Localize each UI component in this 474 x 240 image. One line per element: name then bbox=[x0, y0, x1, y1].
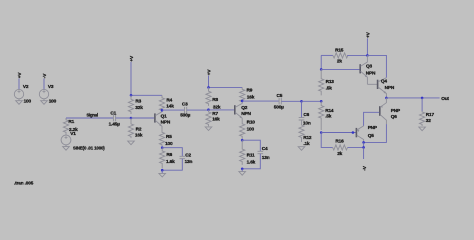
junction R4/Q1 collector/C3 bbox=[161, 109, 164, 112]
resistor R15 bbox=[333, 53, 348, 58]
resistor R14 bbox=[319, 101, 324, 130]
voltage source V2 bbox=[14, 89, 23, 98]
wire junction to C2 top bbox=[162, 148, 182, 157]
ground (below V1) bbox=[63, 147, 70, 151]
svg-text:V3: V3 bbox=[48, 84, 54, 90]
svg-text:Q4: Q4 bbox=[381, 79, 388, 85]
capacitor C1 bbox=[113, 115, 115, 122]
svg-text:16k: 16k bbox=[135, 132, 143, 138]
svg-text:C5: C5 bbox=[277, 93, 283, 99]
svg-text:R9: R9 bbox=[247, 87, 253, 93]
junction Q5 collector / Q6 collector wire bbox=[362, 141, 365, 144]
junction rail/R15/Q3 collector bbox=[366, 54, 369, 57]
wire R15 right to rail junction bbox=[347, 54, 367, 56]
svg-text:32: 32 bbox=[426, 118, 431, 124]
svg-text:1.6k: 1.6k bbox=[166, 159, 175, 165]
wire Q5 emitter up and right to Q6 base bbox=[364, 112, 380, 126]
wire Q3 base bbox=[321, 68, 359, 70]
junction R9/Q2 collector/C5 bbox=[241, 100, 244, 103]
svg-text:Out: Out bbox=[441, 96, 449, 102]
ground (below R7) bbox=[205, 127, 212, 131]
wire V3 top to -V flag bbox=[43, 79, 45, 90]
junction Q3 base wire bbox=[320, 68, 323, 71]
wire R15 corner down to Q3 base junction bbox=[320, 55, 322, 69]
wire C4 bottom to R11 bottom bbox=[242, 154, 260, 169]
wire R14 junction to Q5 base bbox=[321, 132, 356, 134]
junction C5/C6 node bbox=[300, 100, 303, 103]
svg-text:R10: R10 bbox=[247, 120, 256, 126]
svg-text:R14: R14 bbox=[325, 108, 334, 114]
wire V2 bottom to ground bbox=[18, 99, 20, 101]
svg-text:.5k: .5k bbox=[325, 113, 332, 119]
svg-text:16k: 16k bbox=[247, 95, 255, 101]
svg-text:Q6: Q6 bbox=[391, 114, 398, 120]
ground (stage 1 emitter) bbox=[159, 173, 166, 177]
wire C1 to Q1 base node bbox=[116, 117, 131, 119]
svg-text:R3: R3 bbox=[135, 98, 141, 104]
junction output node bbox=[385, 97, 388, 100]
transistor Q4 bbox=[378, 78, 387, 98]
svg-text:NPN: NPN bbox=[366, 71, 376, 77]
junction rail/R3/R4 bbox=[130, 94, 133, 97]
resistor R2 bbox=[128, 118, 133, 138]
svg-text:C2: C2 bbox=[185, 152, 191, 158]
svg-text:.5k: .5k bbox=[326, 85, 333, 91]
ground (below V3) bbox=[41, 101, 48, 105]
capacitor C3 bbox=[185, 107, 187, 114]
resistor R6 bbox=[160, 148, 165, 169]
junction Q1 base node bbox=[130, 117, 133, 120]
svg-text:R11: R11 bbox=[247, 153, 255, 159]
resistor R9 bbox=[240, 87, 245, 102]
svg-text:Q3: Q3 bbox=[366, 64, 373, 70]
svg-text:R15: R15 bbox=[335, 48, 344, 54]
wire down to -V flag bbox=[363, 147, 365, 159]
signal source V1 bbox=[61, 134, 71, 147]
capacitor C5 bbox=[279, 98, 281, 105]
wire collector to C3 bbox=[162, 109, 184, 111]
junction R10/R11/C4 bbox=[241, 139, 244, 142]
resistor R16 bbox=[333, 145, 348, 150]
resistor R12 bbox=[299, 120, 304, 142]
svg-text:Q5: Q5 bbox=[368, 133, 375, 139]
wire junction down to R16 wire bbox=[363, 142, 365, 147]
svg-text:C1: C1 bbox=[110, 110, 116, 116]
capacitor C6 bbox=[299, 118, 305, 120]
wire node to Q1 base bbox=[131, 117, 154, 119]
svg-text:SINE(0 .01 1000): SINE(0 .01 1000) bbox=[73, 145, 105, 150]
wire node to Q2 base bbox=[209, 109, 235, 111]
junction rail/R8/R9 bbox=[207, 86, 210, 89]
wire V3 bottom to ground bbox=[43, 99, 45, 101]
wire down to R17 bbox=[421, 98, 423, 111]
ground (stage 2 emitter) bbox=[239, 172, 246, 176]
svg-text:100: 100 bbox=[165, 141, 173, 147]
junction R5/R6/C2 bbox=[161, 146, 164, 149]
transistor Q5 bbox=[356, 126, 363, 142]
junction R11/C4/ground bbox=[241, 168, 244, 171]
svg-text:13n: 13n bbox=[262, 155, 270, 161]
resistor R1 bbox=[63, 118, 68, 134]
wire R16 left corner bbox=[321, 133, 332, 148]
wire C5 to VAS input node bbox=[281, 100, 301, 102]
resistor R7 bbox=[206, 110, 211, 126]
svg-text:100: 100 bbox=[247, 127, 255, 133]
resistor R17 bbox=[420, 111, 425, 126]
capacitor C4 bbox=[258, 151, 264, 153]
svg-text:R1: R1 bbox=[68, 119, 74, 125]
wire rail junction to Q4 collector corner bbox=[367, 55, 386, 77]
svg-text:32k: 32k bbox=[135, 105, 143, 111]
svg-text:.tran .005: .tran .005 bbox=[14, 181, 34, 186]
svg-text:500µ: 500µ bbox=[274, 105, 284, 111]
svg-text:R13: R13 bbox=[326, 79, 335, 85]
transistor Q2 bbox=[235, 101, 242, 122]
svg-text:R2: R2 bbox=[136, 127, 142, 133]
wire to stage1 ground bbox=[161, 170, 163, 173]
svg-text:R16: R16 bbox=[335, 138, 344, 144]
resistor R4 bbox=[159, 95, 164, 110]
svg-text:2k: 2k bbox=[337, 59, 342, 65]
wire +V rail down to R8 top junction bbox=[208, 76, 210, 88]
transistor Q1 bbox=[155, 110, 162, 130]
svg-text:NPN: NPN bbox=[241, 111, 251, 117]
svg-text:C4: C4 bbox=[262, 146, 268, 152]
wire +V rail down to R3/R4 junction bbox=[130, 62, 132, 95]
resistor R10 bbox=[240, 122, 245, 140]
wire rail junction to R4 top bbox=[131, 94, 162, 96]
svg-text:100: 100 bbox=[24, 99, 32, 105]
junction Q2 base node bbox=[207, 108, 210, 111]
svg-text:R6: R6 bbox=[166, 152, 172, 158]
wire Q6 collector down and left to Q5 collector node bbox=[364, 124, 387, 142]
wire junction to C4 top bbox=[242, 140, 260, 151]
svg-text:NPN: NPN bbox=[161, 119, 171, 125]
resistor R5 bbox=[159, 130, 164, 147]
ground (below R17) bbox=[419, 127, 426, 131]
wire R16 right to -V junction bbox=[348, 146, 364, 148]
svg-text:R4: R4 bbox=[166, 97, 172, 103]
svg-text:Signal: Signal bbox=[87, 113, 98, 118]
svg-text:R12: R12 bbox=[303, 135, 312, 141]
wire C6 branch down bbox=[301, 101, 303, 117]
svg-text:V2: V2 bbox=[23, 84, 29, 90]
svg-text:NPN: NPN bbox=[385, 85, 395, 91]
svg-text:13n: 13n bbox=[185, 159, 193, 165]
wire rail junction to R9 top bbox=[209, 86, 243, 88]
wire C3 to stage 2 base node bbox=[187, 109, 209, 111]
capacitor C2 bbox=[180, 156, 186, 158]
ground (below R2) bbox=[128, 141, 135, 145]
ground (below V2) bbox=[16, 101, 23, 105]
svg-text:R7: R7 bbox=[212, 111, 218, 117]
svg-text:500µ: 500µ bbox=[180, 113, 190, 119]
svg-text:100: 100 bbox=[49, 99, 57, 105]
transistor Q3 bbox=[360, 55, 377, 84]
svg-text:C3: C3 bbox=[182, 102, 188, 108]
svg-text:PNP: PNP bbox=[368, 125, 377, 131]
resistor R3 bbox=[128, 95, 133, 114]
junction R14/R16/Q5 base bbox=[320, 131, 323, 134]
svg-text:Q2: Q2 bbox=[241, 105, 248, 111]
transistor Q6 bbox=[380, 98, 387, 124]
svg-text:V1: V1 bbox=[70, 131, 76, 137]
ground (below R12) bbox=[298, 147, 305, 151]
svg-text:R17: R17 bbox=[426, 112, 435, 118]
svg-text:1.6k: 1.6k bbox=[247, 160, 256, 166]
svg-text:R5: R5 bbox=[166, 134, 172, 140]
wire to stage2 ground bbox=[241, 169, 243, 172]
wire V2 top to +V flag bbox=[18, 79, 20, 90]
svg-text:14k: 14k bbox=[166, 103, 174, 109]
resistor R13 bbox=[319, 69, 324, 95]
resistor R8 bbox=[206, 87, 211, 105]
wire collector to C5 bbox=[242, 100, 279, 102]
svg-text:1.45µ: 1.45µ bbox=[109, 121, 121, 127]
wire R15 left segment bbox=[321, 54, 333, 56]
junction R16/-V bbox=[362, 146, 365, 149]
voltage source V3 bbox=[39, 89, 48, 98]
wire input R1 to C1 bbox=[66, 117, 113, 119]
resistor R11 bbox=[240, 140, 245, 165]
junction R17 tap bbox=[421, 97, 424, 100]
svg-text:2k: 2k bbox=[337, 151, 342, 157]
svg-text:Q1: Q1 bbox=[161, 113, 168, 119]
wire C2 bottom to R6 bottom bbox=[162, 159, 182, 170]
junction R6/C2/ground bbox=[161, 169, 164, 172]
wire C6 node to R13/R14 junction bbox=[302, 100, 322, 102]
wire output node to Out flag bbox=[386, 97, 439, 99]
svg-text:16k: 16k bbox=[212, 117, 220, 123]
svg-text:PNP: PNP bbox=[391, 108, 400, 114]
svg-text:C6: C6 bbox=[303, 112, 309, 118]
svg-text:.1k: .1k bbox=[303, 141, 310, 147]
junction Q5 base wire bbox=[352, 131, 355, 134]
svg-text:R8: R8 bbox=[212, 97, 218, 103]
wire +V rail down bbox=[366, 38, 368, 55]
junction VAS base column bbox=[320, 100, 323, 103]
